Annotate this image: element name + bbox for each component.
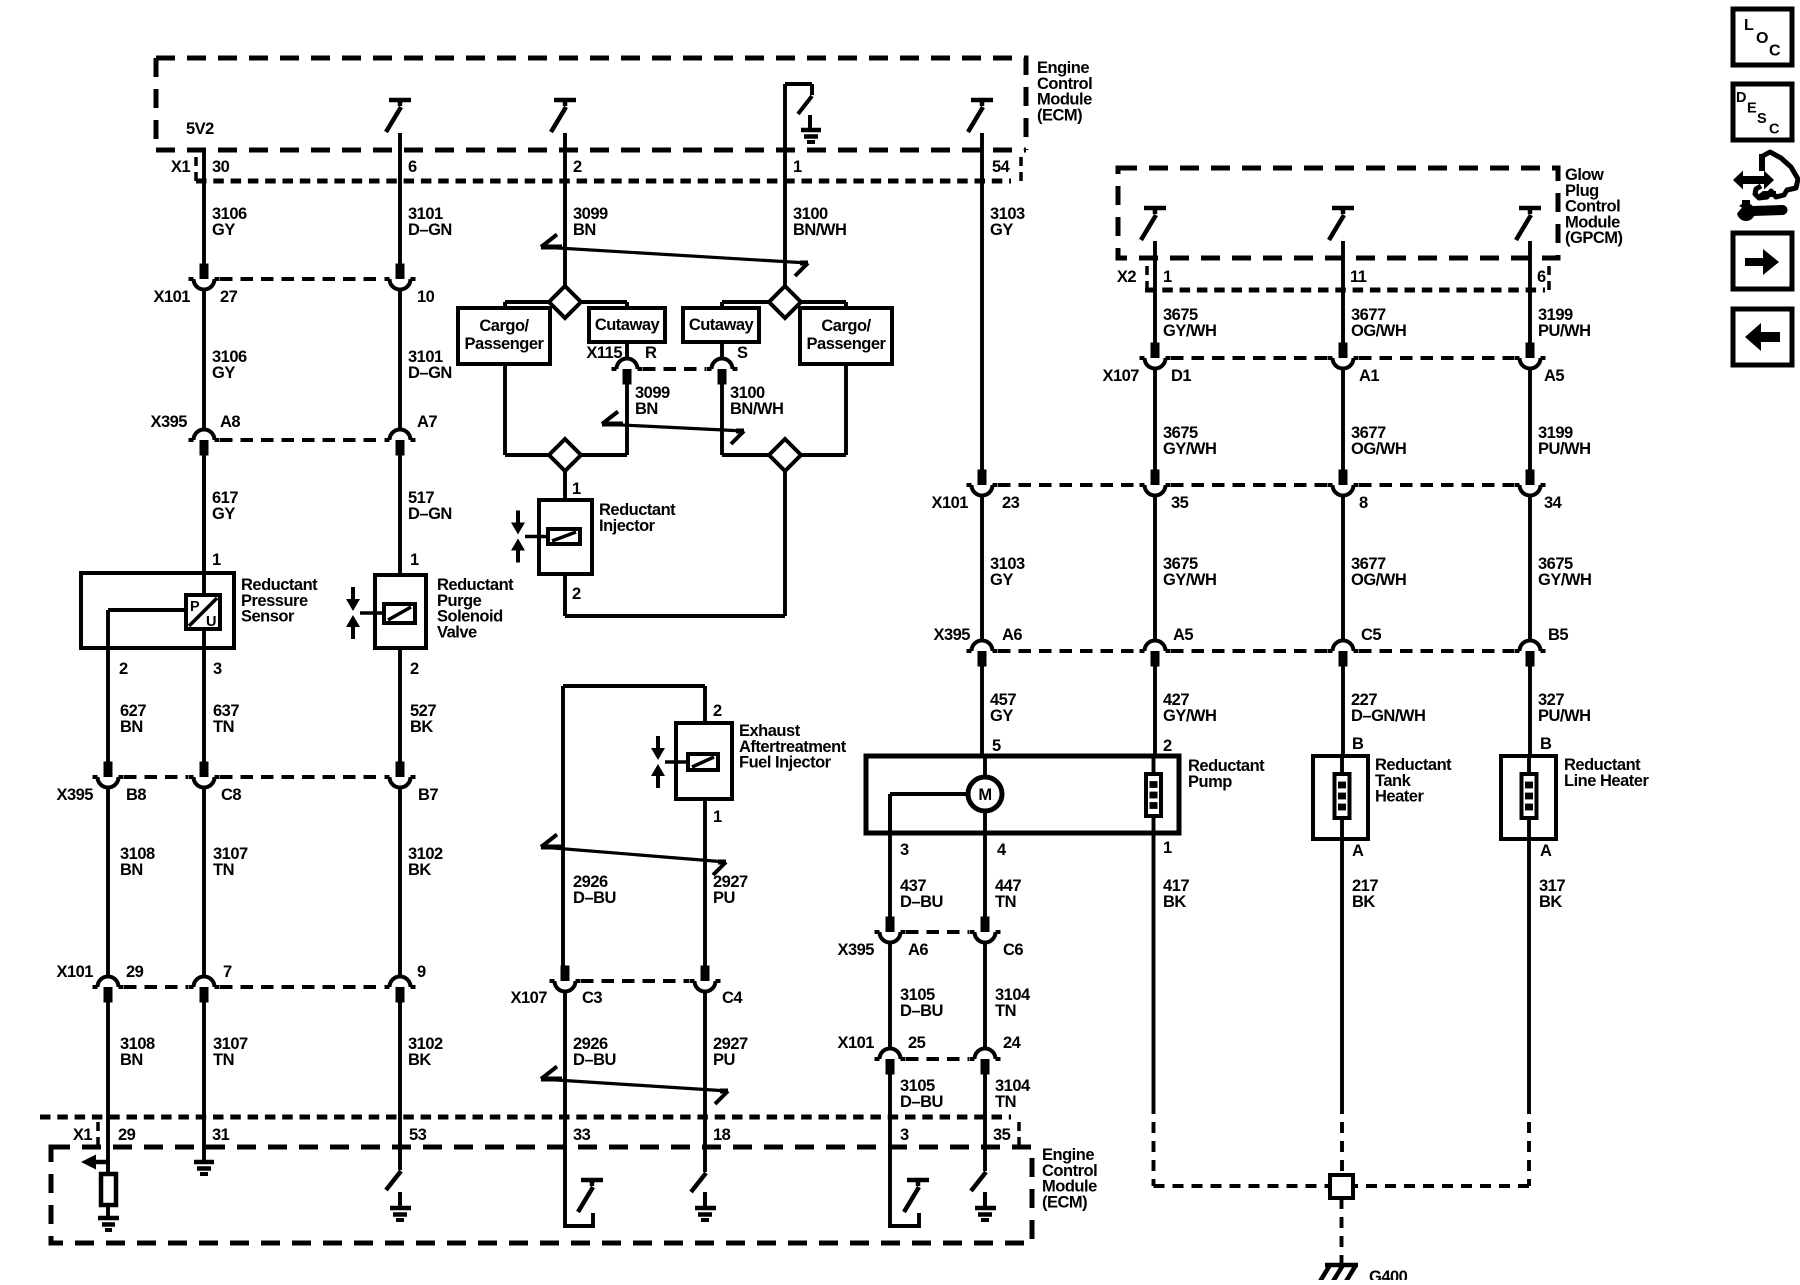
svg-text:A: A — [1540, 842, 1552, 860]
wire 327 PU/WH — [1528, 667, 1532, 757]
ECM output bracket pin 1 with switch and ground — [785, 82, 812, 86]
svg-text:Fuel Injector: Fuel Injector — [739, 754, 832, 772]
svg-text:A5: A5 — [1544, 367, 1564, 385]
box Cargo/Passenger 2 — [800, 308, 892, 364]
ECM driver switch pin 54 — [971, 98, 993, 103]
icon LOC box — [1733, 9, 1792, 65]
svg-text:X101: X101 — [837, 1034, 874, 1052]
svg-text:X1: X1 — [73, 1126, 93, 1144]
Reductant Line Heater box — [1501, 756, 1556, 839]
svg-text:Cargo/: Cargo/ — [479, 317, 529, 335]
svg-text:D–GN/WH: D–GN/WH — [1351, 707, 1425, 725]
connector X101 pin 23 — [978, 470, 987, 486]
GPCM dashed box — [1118, 168, 1558, 258]
svg-text:BN: BN — [120, 718, 143, 736]
internal switch pin3 — [907, 1178, 929, 1183]
svg-text:X395: X395 — [837, 941, 874, 959]
svg-text:BN: BN — [573, 221, 596, 239]
svg-text:X1: X1 — [171, 158, 191, 176]
box Cutaway 1 — [589, 308, 665, 342]
wire 3105 D-BU upper — [888, 943, 892, 1049]
svg-text:A6: A6 — [1002, 626, 1022, 644]
connector X115 pin R — [623, 369, 632, 385]
svg-text:3: 3 — [213, 660, 222, 678]
svg-text:5V2: 5V2 — [186, 120, 214, 138]
svg-text:X107: X107 — [510, 989, 547, 1007]
wire X115 S to diamond S4 — [720, 385, 724, 456]
wire X1-3 into ECM with bracket — [890, 1117, 919, 1226]
internal ground pin31 — [194, 1160, 214, 1165]
wire X115 R to diamond S3 — [625, 385, 629, 456]
wire 3102 BK upper — [398, 788, 402, 977]
wire Cutaway2 to X115 S — [720, 342, 724, 359]
page arrow 3099/3100 top — [541, 247, 808, 263]
connector X107 pin D1 — [1151, 343, 1160, 359]
internal switch pin53 — [386, 1171, 401, 1190]
svg-text:D–BU: D–BU — [900, 1093, 943, 1111]
wire GPCM pin11 to X2 — [1341, 241, 1345, 290]
svg-text:1: 1 — [713, 808, 722, 826]
wire 3104 TN upper — [983, 943, 987, 1049]
svg-text:BN/WH: BN/WH — [793, 221, 846, 239]
ground G400 symbol — [1325, 1263, 1358, 1268]
internal switch pin33 — [581, 1178, 603, 1183]
svg-text:3: 3 — [900, 1126, 909, 1144]
wire to Cargo/Passenger 2 — [801, 300, 846, 304]
wire 317 BK dashed to G400 — [1527, 1103, 1531, 1186]
wire 3199 PU/WH mid — [1528, 369, 1532, 470]
svg-text:C6: C6 — [1003, 941, 1023, 959]
svg-text:BK: BK — [408, 1051, 431, 1069]
wire 417 BK dashed to G400 — [1152, 1103, 1156, 1186]
Reductant Injector box — [539, 500, 592, 574]
wire 447 TN — [983, 833, 987, 917]
splice diamond S2 — [769, 286, 801, 318]
connector X101 pin 8 — [1339, 470, 1348, 486]
svg-text:1: 1 — [1163, 268, 1172, 286]
svg-text:Sensor: Sensor — [241, 608, 295, 626]
svg-text:Passenger: Passenger — [807, 335, 887, 353]
svg-text:A7: A7 — [417, 413, 437, 431]
internal ground pin29 — [98, 1216, 119, 1221]
splice diamond S4 — [722, 453, 769, 457]
svg-text:O: O — [1756, 30, 1768, 47]
svg-text:X107: X107 — [1102, 367, 1139, 385]
wire 2926 D-BU lower — [563, 992, 567, 1118]
svg-text:GY: GY — [990, 221, 1013, 239]
wire 517 D-GN — [398, 456, 402, 576]
svg-text:GY: GY — [212, 364, 235, 382]
svg-text:Valve: Valve — [437, 623, 477, 641]
svg-text:25: 25 — [908, 1034, 926, 1052]
svg-text:GY/WH: GY/WH — [1163, 707, 1216, 725]
internal ground pin18 — [703, 1192, 707, 1206]
connector X101 pin 10 — [396, 264, 405, 280]
svg-text:GY/WH: GY/WH — [1163, 322, 1216, 340]
svg-text:TN: TN — [213, 861, 234, 879]
wire 417 BK — [1152, 833, 1156, 1103]
wire 3677 OG/WH mid — [1341, 369, 1345, 470]
svg-text:29: 29 — [118, 1126, 136, 1144]
X2 tick marks — [1145, 266, 1149, 275]
svg-text:B: B — [1540, 735, 1552, 753]
connector X395 pin C5 — [1339, 651, 1348, 667]
wire X1-31 into ECM — [202, 1117, 206, 1160]
svg-text:29: 29 — [126, 963, 144, 981]
svg-text:C5: C5 — [1361, 626, 1381, 644]
svg-text:(ECM): (ECM) — [1037, 106, 1082, 124]
connector X1 top dotted line — [196, 179, 1011, 184]
svg-text:GY: GY — [990, 707, 1013, 725]
wire 3103 GY pin54 upper — [980, 133, 984, 470]
wire 317 BK — [1527, 839, 1531, 1103]
icon arrow back box — [1733, 309, 1792, 365]
svg-text:OG/WH: OG/WH — [1351, 322, 1406, 340]
connector X115 dashed line — [643, 367, 706, 371]
connector X395 pin B5 — [1526, 651, 1535, 667]
wire 3105 D-BU lower — [888, 1075, 892, 1118]
ECM top dashed box — [156, 58, 1026, 150]
svg-text:PU: PU — [713, 1051, 735, 1069]
svg-text:D–GN: D–GN — [408, 364, 452, 382]
svg-text:BK: BK — [1163, 893, 1186, 911]
svg-text:A6: A6 — [908, 941, 928, 959]
svg-text:4: 4 — [997, 841, 1007, 859]
svg-text:TN: TN — [995, 1093, 1016, 1111]
svg-text:18: 18 — [713, 1126, 731, 1144]
svg-text:U: U — [206, 614, 216, 630]
svg-text:34: 34 — [1544, 494, 1563, 512]
icon arrow next box — [1733, 233, 1792, 289]
connector X2 dotted line — [1145, 288, 1545, 293]
svg-text:GY/WH: GY/WH — [1163, 571, 1216, 589]
wire injector pin2 return — [563, 574, 567, 616]
wire CargoPassenger2 down — [844, 364, 848, 455]
svg-text:D–GN: D–GN — [408, 505, 452, 523]
connector X101 pin 25 — [886, 1059, 895, 1075]
svg-text:X115: X115 — [586, 344, 622, 362]
svg-text:B: B — [1352, 735, 1364, 753]
svg-text:GY/WH: GY/WH — [1538, 571, 1591, 589]
svg-text:2: 2 — [1163, 737, 1172, 755]
svg-text:OG/WH: OG/WH — [1351, 440, 1406, 458]
svg-text:S: S — [737, 344, 748, 362]
wire 3101 D-GN pin6 upper — [398, 133, 402, 264]
wire 3677 OG/WH lower — [1341, 496, 1345, 641]
wire Cutaway1 to X115 R — [625, 342, 629, 359]
pump motor M — [968, 777, 1002, 811]
svg-text:BN: BN — [120, 1051, 143, 1069]
svg-text:35: 35 — [993, 1126, 1011, 1144]
svg-text:2: 2 — [572, 585, 581, 603]
Reductant Tank Heater box — [1313, 756, 1368, 839]
fuel injector valve symbol — [656, 736, 660, 748]
connector X101 row1 dashed line — [220, 277, 384, 281]
wire 3108 BN lower — [106, 1003, 110, 1118]
svg-text:GY: GY — [212, 505, 235, 523]
svg-text:PU/WH: PU/WH — [1538, 322, 1591, 340]
svg-text:GY: GY — [990, 571, 1013, 589]
connector X101 pin 29 — [104, 987, 113, 1003]
wire 427 GY/WH — [1153, 667, 1157, 757]
wire X1-35 into ECM — [983, 1117, 987, 1171]
Reductant Pump box — [866, 756, 1179, 833]
connector X101 right dashed line — [998, 483, 1139, 487]
connector X107 pin C3 — [561, 966, 570, 982]
svg-text:TN: TN — [995, 893, 1016, 911]
svg-text:1: 1 — [793, 158, 802, 176]
svg-text:C3: C3 — [582, 989, 602, 1007]
wire GPCM pin1 to X2 — [1153, 241, 1157, 290]
X1 tick marks — [194, 157, 198, 166]
connector X395 pin A6 — [978, 651, 987, 667]
svg-text:Heater: Heater — [1375, 788, 1424, 806]
wire X1-33 into ECM with bracket — [565, 1117, 593, 1226]
solenoid valve symbol — [351, 587, 355, 599]
wire 217 BK dashed to G400 — [1340, 1103, 1344, 1175]
internal resistor pin29 — [101, 1174, 116, 1205]
connector X101 pin 7 — [200, 987, 209, 1003]
icon DESC box — [1733, 84, 1792, 140]
svg-text:BN: BN — [120, 861, 143, 879]
svg-text:D–BU: D–BU — [573, 1051, 616, 1069]
page arrow 2926/2927 lower — [541, 1079, 728, 1091]
svg-text:6: 6 — [408, 158, 417, 176]
svg-text:G400: G400 — [1369, 1268, 1408, 1280]
svg-text:7: 7 — [223, 963, 232, 981]
wire 3199 PU/WH upper — [1528, 290, 1532, 343]
connector X101 pin 9 — [396, 987, 405, 1003]
svg-text:B7: B7 — [418, 786, 438, 804]
svg-text:53: 53 — [409, 1126, 427, 1144]
connector X101 pin 35 — [1151, 470, 1160, 486]
svg-text:5: 5 — [992, 737, 1001, 755]
svg-text:Cutaway: Cutaway — [595, 316, 661, 334]
connector X101 25/24 dashed line — [906, 1057, 969, 1061]
svg-text:GY/WH: GY/WH — [1163, 440, 1216, 458]
connector X395 B8/C8/B7 dashed line — [124, 775, 188, 779]
box Cutaway 2 — [683, 308, 759, 342]
svg-text:A: A — [1352, 842, 1364, 860]
svg-text:X101: X101 — [153, 288, 190, 306]
svg-text:54: 54 — [992, 158, 1011, 176]
connector X107 center dashed line — [581, 979, 689, 983]
Reductant Purge Solenoid Valve box — [375, 575, 426, 648]
svg-text:A5: A5 — [1173, 626, 1193, 644]
wire 2926 feed top — [561, 686, 565, 966]
internal arrow pin29 — [96, 1160, 110, 1165]
G400 junction square — [1330, 1175, 1353, 1198]
wire pin2 solenoid — [398, 648, 402, 762]
svg-text:C: C — [1769, 43, 1781, 60]
connector X395 pin A5 — [1151, 651, 1160, 667]
ECM driver switch pin 6 — [389, 98, 411, 103]
svg-text:R: R — [645, 344, 657, 362]
svg-text:S: S — [1757, 111, 1767, 127]
wire pin1 sensor top — [202, 455, 206, 573]
svg-text:OG/WH: OG/WH — [1351, 571, 1406, 589]
svg-text:27: 27 — [220, 288, 238, 306]
svg-text:23: 23 — [1002, 494, 1020, 512]
connector X101 pin 24 — [981, 1059, 990, 1075]
wire 3100 BN/WH pin1 — [783, 84, 787, 286]
svg-text:Pump: Pump — [1188, 773, 1232, 791]
svg-text:X101: X101 — [56, 963, 93, 981]
connector X395 pin A8 — [200, 440, 209, 456]
internal switch pin18 — [691, 1173, 706, 1192]
svg-text:B5: B5 — [1548, 626, 1568, 644]
svg-text:(GPCM): (GPCM) — [1565, 229, 1623, 247]
wire G400 square to ground — [1340, 1198, 1344, 1263]
svg-text:BN/WH: BN/WH — [730, 400, 783, 418]
connector X395 pin B8 — [104, 762, 113, 778]
svg-text:8: 8 — [1359, 494, 1368, 512]
wire 3108 BN upper — [106, 788, 110, 977]
wire 3102 BK lower — [398, 1003, 402, 1118]
svg-text:D: D — [1736, 90, 1746, 106]
internal ground pin53 — [398, 1192, 402, 1206]
svg-text:PU/WH: PU/WH — [1538, 707, 1591, 725]
GPCM driver switch pin 1 — [1144, 206, 1166, 211]
svg-text:P: P — [190, 599, 200, 615]
svg-text:1: 1 — [212, 551, 221, 569]
connector X101 29/7/9 dashed line — [124, 985, 188, 989]
GPCM driver switch pin 6 — [1519, 206, 1541, 211]
connector X395 row1 dashed line — [220, 438, 384, 442]
connector X395 pin B7 — [396, 762, 405, 778]
connector X395 pin A7 — [396, 440, 405, 456]
svg-text:9: 9 — [417, 963, 426, 981]
wire to injector pin 2 — [703, 686, 707, 723]
connector X395 pin A6 lower — [886, 917, 895, 933]
wire 3675 GY/WH upper — [1153, 290, 1157, 343]
svg-text:PU: PU — [713, 889, 735, 907]
wire 3675 GY/WH mid — [1153, 369, 1157, 470]
svg-text:31: 31 — [212, 1126, 230, 1144]
wire CargoPassenger1 down — [503, 364, 507, 455]
wire 3107 TN lower — [202, 1003, 206, 1118]
svg-text:A1: A1 — [1359, 367, 1379, 385]
svg-text:35: 35 — [1171, 494, 1189, 512]
svg-text:Cargo/: Cargo/ — [821, 317, 871, 335]
svg-text:D–BU: D–BU — [573, 889, 616, 907]
connector X115 pin S — [718, 369, 727, 385]
svg-text:2: 2 — [410, 660, 419, 678]
connector X101 pin 34 — [1526, 470, 1535, 486]
svg-text:BK: BK — [1352, 893, 1375, 911]
wire 457 GY — [980, 667, 984, 757]
wire 217 BK — [1340, 839, 1344, 1103]
svg-text:30: 30 — [212, 158, 230, 176]
wire 637 TN — [202, 648, 206, 762]
connector X395 right dashed line — [998, 649, 1139, 653]
pump heater element — [1146, 774, 1161, 816]
connector X107 right dashed line — [1171, 356, 1327, 360]
wire 617 GY — [202, 456, 206, 574]
svg-text:C4: C4 — [722, 989, 743, 1007]
svg-text:10: 10 — [417, 288, 435, 306]
ECM bottom dashed box — [51, 1147, 1032, 1243]
svg-text:Cutaway: Cutaway — [689, 316, 755, 334]
svg-text:1: 1 — [1163, 839, 1172, 857]
svg-text:M: M — [978, 786, 991, 804]
svg-text:1: 1 — [572, 480, 581, 498]
sensor P/U symbol — [186, 595, 220, 629]
svg-text:X395: X395 — [933, 626, 970, 644]
svg-text:BK: BK — [408, 861, 431, 879]
internal ground pin35 — [983, 1192, 987, 1206]
connector X107 pin C4 — [701, 966, 710, 982]
wire to Cutaway 2 — [722, 300, 769, 304]
connector X107 pin A5 — [1526, 343, 1535, 359]
wire GPCM pin6 to X2 — [1528, 241, 1532, 290]
Reductant Pressure Sensor box — [81, 573, 234, 648]
X1 bottom tick marks — [96, 1122, 100, 1131]
connector X1 bottom dotted line — [40, 1115, 1011, 1120]
wire 3104 TN lower — [983, 1075, 987, 1118]
wire 3103 GY lower — [980, 496, 984, 641]
wire X1-18 into ECM — [703, 1117, 707, 1172]
svg-text:2: 2 — [119, 660, 128, 678]
svg-text:Injector: Injector — [599, 517, 656, 535]
connector X107 pin A1 — [1339, 343, 1348, 359]
svg-text:11: 11 — [1350, 268, 1367, 286]
box Cargo/Passenger 1 — [458, 308, 550, 364]
svg-text:6: 6 — [1537, 268, 1546, 286]
wire 3099 BN pin2 — [563, 133, 567, 286]
svg-text:L: L — [1744, 17, 1754, 34]
svg-text:D–BU: D–BU — [900, 893, 943, 911]
wire X1-53 into ECM — [398, 1117, 402, 1170]
svg-text:33: 33 — [573, 1126, 591, 1144]
svg-text:X395: X395 — [150, 413, 187, 431]
Exhaust Aftertreatment Fuel Injector box — [676, 723, 732, 799]
svg-text:TN: TN — [995, 1002, 1016, 1020]
svg-text:TN: TN — [213, 1051, 234, 1069]
svg-text:3: 3 — [900, 841, 909, 859]
wire 437 D-BU — [888, 833, 892, 917]
pump internal wiring — [890, 792, 968, 796]
splice diamond S3 — [505, 453, 549, 457]
wire 2927 PU lower — [703, 992, 707, 1118]
wire X1-29 into ECM — [106, 1117, 110, 1174]
svg-text:BK: BK — [410, 718, 433, 736]
wire 227 D-GN/WH — [1341, 667, 1345, 757]
svg-text:X101: X101 — [931, 494, 968, 512]
splice diamond S1 — [549, 286, 581, 318]
svg-text:Passenger: Passenger — [465, 335, 545, 353]
svg-text:D1: D1 — [1171, 367, 1191, 385]
svg-text:D–BU: D–BU — [900, 1002, 943, 1020]
svg-text:BK: BK — [1539, 893, 1562, 911]
svg-text:Line Heater: Line Heater — [1564, 772, 1649, 790]
wire diamond S3 to Reductant Injector pin 1 — [563, 471, 567, 500]
page arrow 3099/3100 lower — [602, 424, 744, 431]
connector X395 pin C8 — [200, 762, 209, 778]
GPCM driver switch pin 11 — [1332, 206, 1354, 211]
wire 3677 OG/WH upper — [1341, 290, 1345, 343]
wire 3106 GY pin30 upper — [202, 149, 206, 264]
page arrow 2926/2927 upper — [541, 847, 726, 862]
Reductant Injector valve symbol — [516, 511, 520, 523]
connector X101 pin 27 — [200, 264, 209, 280]
wire to Cargo/Passenger 1 — [505, 300, 549, 304]
wire to Cutaway 1 — [581, 300, 627, 304]
svg-text:2: 2 — [573, 158, 582, 176]
svg-text:2: 2 — [713, 702, 722, 720]
connector X395 A6/C6 dashed line — [906, 930, 969, 934]
sensor wiring internal — [202, 573, 206, 595]
